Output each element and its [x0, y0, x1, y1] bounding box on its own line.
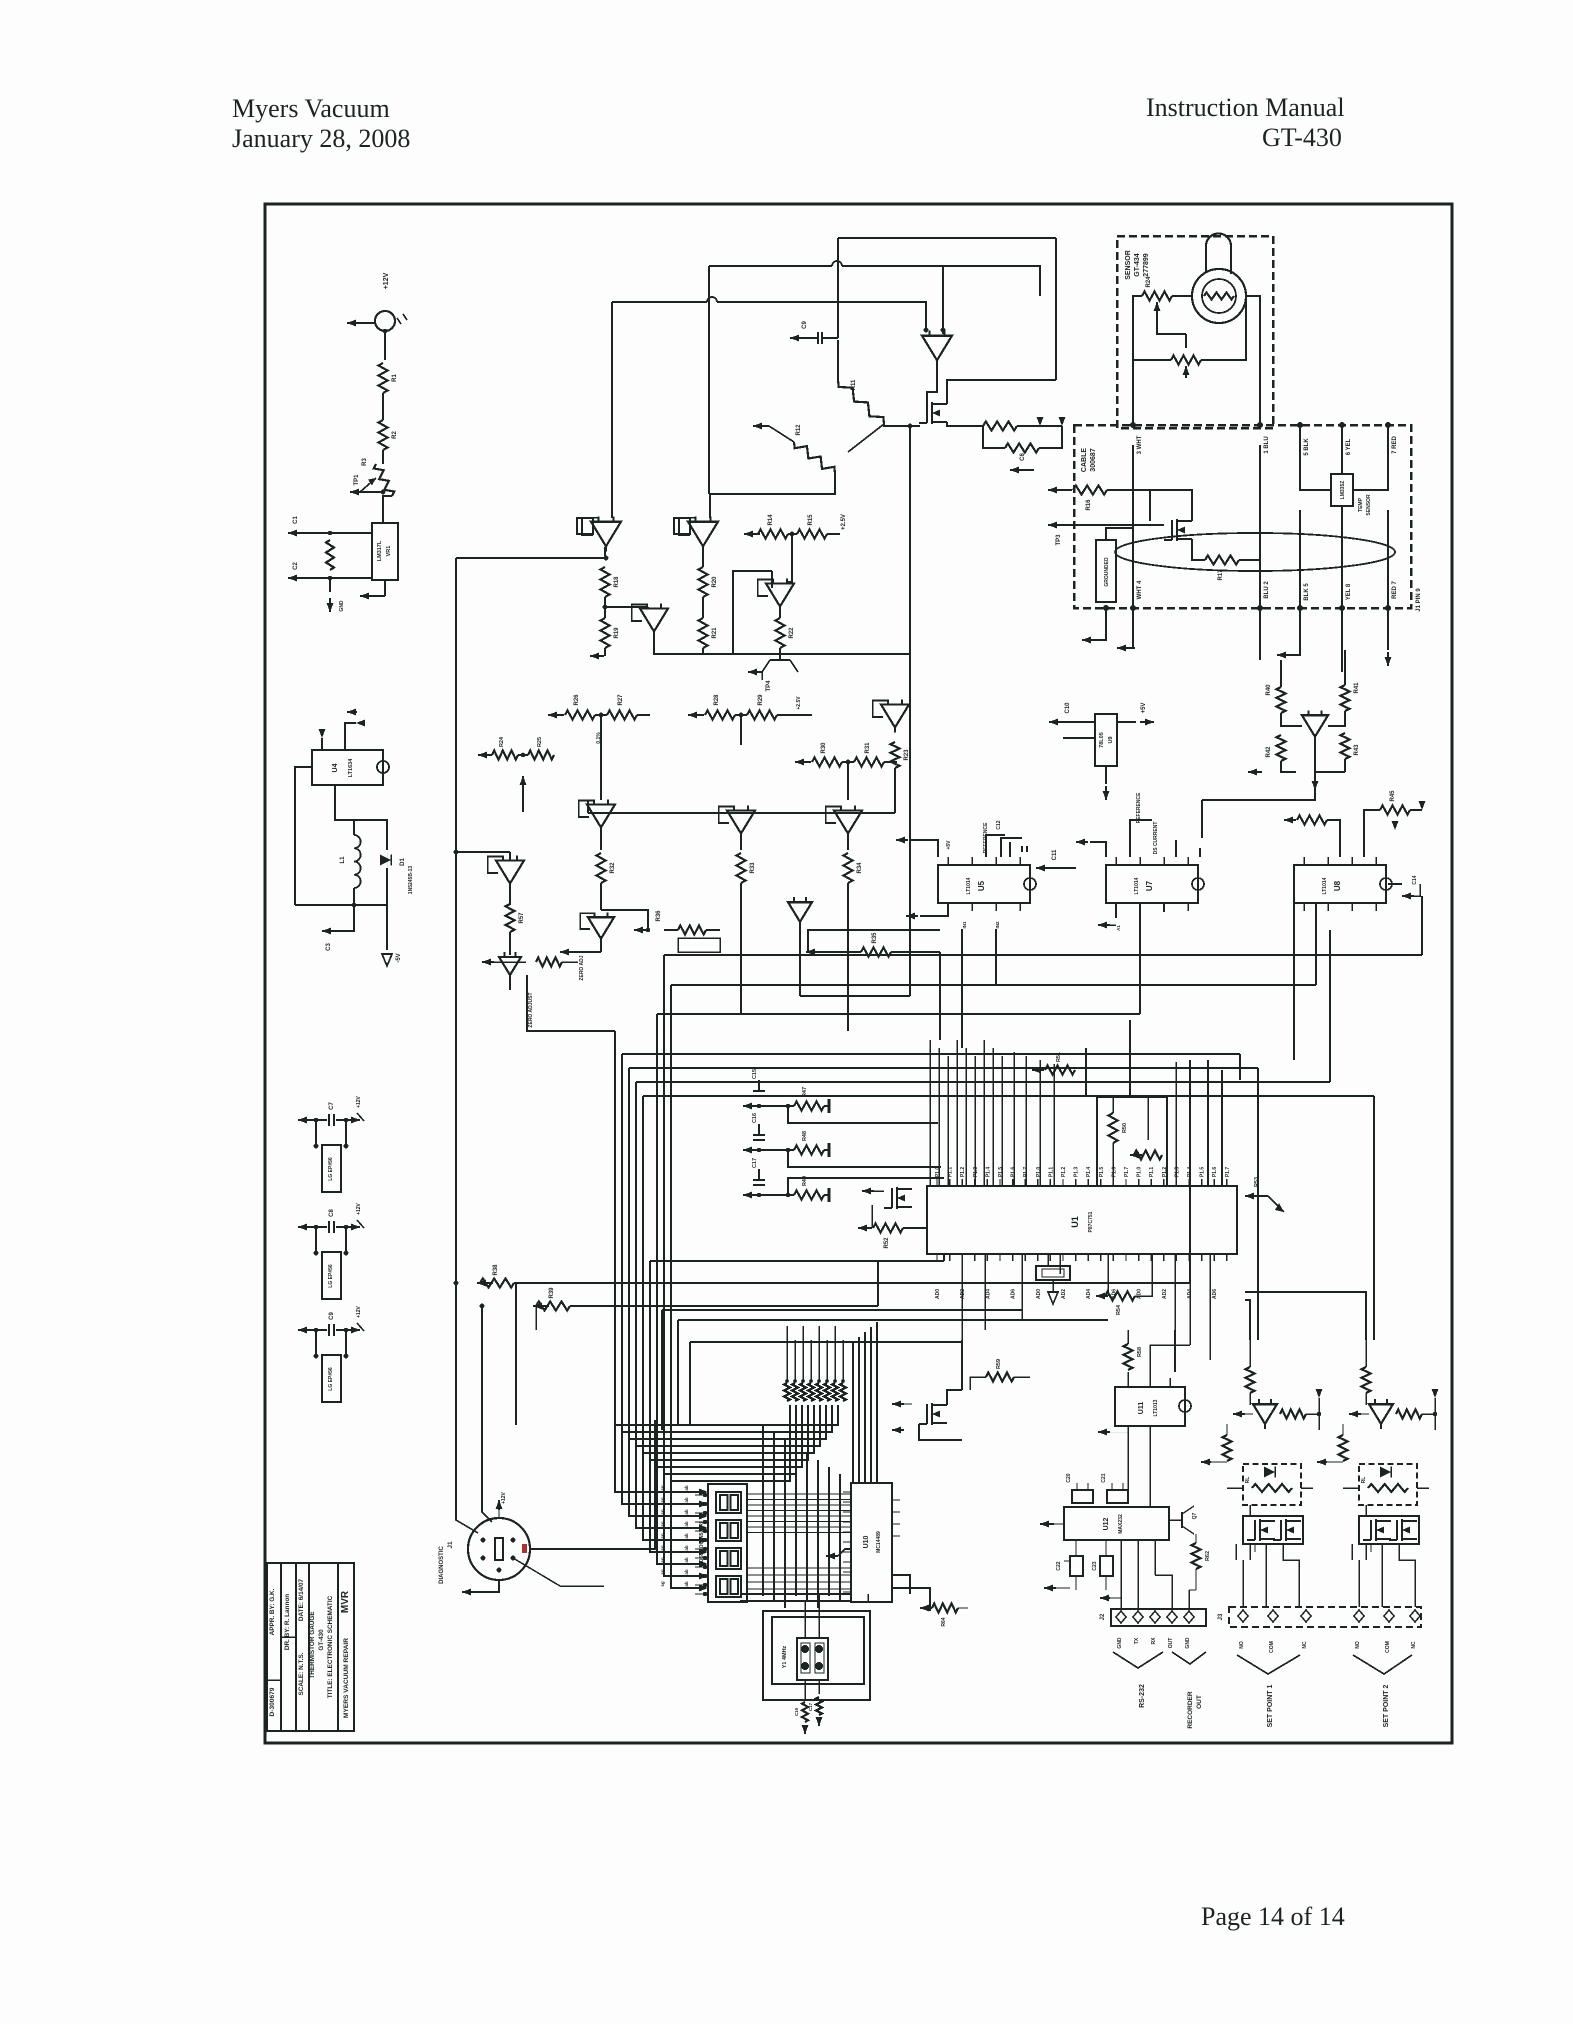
svg-text:R25: R25	[537, 737, 543, 747]
svg-text:7 RED: 7 RED	[1392, 435, 1398, 453]
bus band wire 1	[622, 1054, 1240, 1432]
svg-text:C21: C21	[1101, 1473, 1107, 1482]
svg-text:AD2: AD2	[1162, 1289, 1168, 1299]
bus band wire 3	[636, 930, 1330, 1446]
svg-text:Myers Vacuum: Myers Vacuum	[232, 94, 390, 123]
jack J6 connector LG EP#56	[322, 1355, 341, 1402]
wire thermistor top leads	[1206, 234, 1231, 275]
wire below U1 band	[650, 1261, 1108, 1460]
cable pin BLK 5	[1297, 583, 1310, 611]
reference U4 LT1009	[312, 750, 389, 785]
svg-text:R22: R22	[789, 627, 795, 639]
svg-text:U11: U11	[1138, 1402, 1145, 1415]
svg-text:RS-232: RS-232	[1139, 1684, 1146, 1708]
svg-text:78L05: 78L05	[1099, 732, 1105, 748]
U8 surround wires	[1284, 790, 1426, 930]
svg-text:C17: C17	[752, 1158, 758, 1168]
op-amp U5D mid2	[788, 897, 812, 935]
svg-text:SET POINT 1: SET POINT 1	[1267, 1685, 1274, 1728]
svg-text:U5: U5	[977, 880, 986, 891]
svg-text:IN2: IN2	[995, 921, 1000, 929]
resistor R19	[601, 618, 621, 648]
jack J5 coupling cap C8	[298, 1202, 364, 1233]
svg-text:R45: R45	[1390, 790, 1396, 802]
cluster small parts	[601, 910, 720, 952]
svg-text:C10: C10	[1065, 702, 1071, 714]
svg-text:+5V: +5V	[1141, 703, 1147, 714]
title appr	[269, 1588, 276, 1635]
svg-text:R50: R50	[1122, 1123, 1128, 1133]
svg-text:RL: RL	[1245, 1477, 1251, 1484]
transistor U6B	[482, 952, 578, 1028]
svg-text:VR1: VR1	[386, 546, 392, 557]
svg-text:D-300679: D-300679	[269, 1687, 276, 1716]
svg-text:R17: R17	[1218, 569, 1224, 581]
op-amp U5B mid	[579, 800, 615, 850]
svg-text:R39: R39	[549, 1287, 555, 1299]
svg-text:MC14489: MC14489	[876, 1531, 882, 1553]
wire rail jumper A	[709, 261, 943, 494]
arrow right of U1	[1245, 1177, 1284, 1212]
svg-text:LG EP#56: LG EP#56	[328, 1157, 334, 1181]
resistor R52 left of U1	[858, 1205, 927, 1249]
resistor trio right of U1	[1032, 1052, 1075, 1075]
svg-text:R29: R29	[758, 694, 764, 706]
arrow U10 enable	[826, 1549, 852, 1560]
resistor R2	[379, 420, 399, 450]
svg-text:AD0: AD0	[1137, 1289, 1143, 1299]
resistor R35 h	[806, 932, 940, 957]
u4 left rail	[295, 767, 312, 905]
resistor R16	[1048, 486, 1150, 511]
svg-text:C8: C8	[329, 1209, 335, 1217]
svg-text:+12V: +12V	[501, 1491, 507, 1503]
svg-text:C9: C9	[802, 321, 808, 329]
op-amp U5D mid	[826, 806, 862, 850]
resistor R13 pair	[962, 417, 1066, 453]
wire r20-r21	[702, 597, 704, 618]
cable pin BLU 2	[1257, 581, 1270, 611]
wire bus h5	[527, 930, 848, 1031]
inductor L1	[335, 785, 361, 888]
svg-text:P1.4: P1.4	[1086, 1167, 1092, 1178]
trim resistor R24	[1142, 276, 1192, 316]
J3 pin labels	[1239, 1641, 1417, 1653]
resistor R60a	[1246, 1340, 1255, 1405]
cable pin YEL 8	[1339, 583, 1352, 611]
svg-text:R32: R32	[610, 862, 616, 874]
resistor R18	[601, 567, 621, 597]
svg-text:LT1014: LT1014	[966, 877, 972, 894]
schematic border frame	[265, 204, 1452, 1743]
mosfet Q1	[919, 361, 947, 424]
mosfet Q2	[1150, 490, 1192, 541]
svg-text:+12V: +12V	[356, 1202, 362, 1214]
mosfet Q5 left of U1	[862, 1187, 912, 1209]
svg-text:ab: ab	[684, 1509, 689, 1515]
resistor R34 under	[844, 853, 864, 930]
op-amp U5C mid	[719, 806, 755, 850]
svg-text:SET POINT 2: SET POINT 2	[1383, 1685, 1390, 1728]
svg-text:U10: U10	[863, 1535, 870, 1548]
cable 300687 dashed box	[1074, 425, 1411, 608]
cable pin 5 BLK	[1297, 422, 1310, 456]
svg-text:R19: R19	[614, 627, 620, 639]
band fan verticals	[787, 1326, 843, 1381]
svg-text:WHT 4: WHT 4	[1137, 580, 1143, 599]
crystal caps C16 C17	[794, 1680, 823, 1734]
jack J5 connector LG EP#56	[322, 1252, 341, 1299]
wire u3a out	[779, 607, 781, 618]
grounded shield box	[1096, 528, 1133, 602]
wire YEL8 down to R27	[1341, 608, 1343, 672]
svg-text:P1.5: P1.5	[998, 1167, 1004, 1178]
capacitor C23	[1092, 1540, 1113, 1590]
resistor R61a	[1362, 1340, 1371, 1405]
thermistor RT1	[1192, 269, 1246, 323]
svg-text:R24: R24	[1146, 276, 1152, 288]
svg-text:LM335Z: LM335Z	[1340, 481, 1346, 500]
svg-text:AD4: AD4	[985, 1289, 991, 1299]
svg-text:C11: C11	[1052, 849, 1058, 860]
tee network A	[548, 694, 650, 800]
svg-text:ab: ab	[684, 1521, 689, 1527]
wire R1-R2	[382, 393, 384, 420]
resistor R62	[1192, 1534, 1212, 1590]
capacitor C20	[1066, 1473, 1093, 1503]
svg-text:AD2: AD2	[960, 1289, 966, 1299]
u4 top leads	[319, 709, 366, 751]
capacitor C9 top	[790, 238, 838, 344]
jack J5 bracket	[314, 1225, 349, 1256]
relay wires K2	[1352, 1505, 1415, 1607]
diag resistor R11	[838, 340, 884, 424]
svg-text:AD0: AD0	[935, 1289, 941, 1299]
svg-text:6 YEL: 6 YEL	[1346, 438, 1352, 455]
svg-text:C3: C3	[326, 943, 332, 951]
svg-text:TP1: TP1	[354, 474, 360, 486]
U12 down wires	[1121, 1540, 1196, 1609]
transistor driver K2	[1349, 1389, 1439, 1430]
svg-text:R53: R53	[1254, 1177, 1260, 1187]
svg-text:P1.2: P1.2	[1061, 1167, 1067, 1178]
svg-text:AD0: AD0	[1036, 1289, 1042, 1299]
wire RED7 down	[1385, 608, 1392, 666]
U10 bottom wires	[740, 1575, 930, 1611]
resistor R63 right of crystal	[920, 1604, 968, 1627]
header model number	[1262, 123, 1342, 152]
regulator VR1	[372, 523, 398, 580]
svg-text:R59: R59	[996, 1359, 1002, 1369]
crystal enclosure outer	[763, 1611, 870, 1700]
op-amp U3C	[588, 700, 910, 813]
svg-text:LG EP#56: LG EP#56	[328, 1264, 334, 1288]
vreg U9 vertical	[1049, 702, 1154, 800]
display DS1 4-digit	[699, 1484, 747, 1602]
svg-text:GND: GND	[1117, 1637, 1123, 1649]
svg-text:P1.6: P1.6	[1212, 1167, 1218, 1178]
display left pin blobs	[695, 1493, 707, 1596]
svg-text:ab: ab	[684, 1557, 689, 1563]
resistor R61b	[1317, 1424, 1348, 1466]
wire shield to ground	[1082, 608, 1106, 644]
relay wires K1	[1236, 1505, 1299, 1607]
svg-text:R30: R30	[821, 742, 827, 754]
svg-text:Y1 4MHz: Y1 4MHz	[782, 1645, 788, 1668]
svg-text:C20: C20	[1066, 1473, 1072, 1482]
svg-text:R18: R18	[614, 576, 620, 588]
wire rail jumper B	[612, 297, 926, 518]
svg-text:GND: GND	[1185, 1637, 1191, 1649]
svg-text:GT-430: GT-430	[1262, 123, 1342, 152]
svg-text:ab: ab	[684, 1545, 689, 1551]
J2 pin labels	[1117, 1637, 1191, 1649]
resistor R22	[776, 618, 796, 648]
svg-text:R51: R51	[1056, 1052, 1062, 1062]
svg-text:RX: RX	[1151, 1637, 1157, 1645]
svg-text:OUT: OUT	[1196, 1695, 1203, 1709]
title block frame	[267, 1563, 354, 1731]
svg-text:GT-430: GT-430	[318, 1629, 325, 1651]
svg-text:LM317L: LM317L	[377, 540, 383, 561]
title date	[298, 1578, 305, 1621]
wire bus h2	[962, 896, 1422, 955]
bus band wire 7	[671, 985, 996, 1481]
vertical drops right group	[1014, 1020, 1222, 1186]
transistor Q4 right	[1248, 650, 1360, 790]
title logo	[340, 1590, 351, 1613]
svg-text:U9: U9	[1108, 736, 1114, 743]
svg-text:+12V: +12V	[356, 1305, 362, 1317]
svg-text:+12V: +12V	[356, 1095, 362, 1107]
svg-text:AD6: AD6	[1011, 1289, 1017, 1299]
svg-text:TX: TX	[1134, 1637, 1140, 1644]
wire P1 down	[384, 331, 386, 360]
op-amp U6A	[488, 856, 524, 905]
svg-text:ab: ab	[684, 1569, 689, 1575]
svg-text:C6: C6	[1020, 453, 1026, 461]
svg-text:R27: R27	[618, 694, 624, 706]
svg-text:BLK 5: BLK 5	[1304, 583, 1310, 601]
U7 surround wires	[1076, 792, 1200, 929]
wire r19 down arrow	[590, 648, 605, 660]
svg-text:Page 14 of 14: Page 14 of 14	[1201, 1902, 1345, 1931]
wires U11 to U12	[1128, 1438, 1150, 1507]
resistor R39 long wire	[533, 1261, 878, 1311]
wire q2 context	[1048, 522, 1164, 546]
svg-text:SENSOR: SENSOR	[1366, 494, 1372, 516]
svg-text:5 BLK: 5 BLK	[1304, 438, 1310, 456]
svg-text:GND: GND	[339, 600, 345, 612]
svg-text:0.1%: 0.1%	[596, 732, 602, 744]
svg-text:R28: R28	[714, 694, 720, 706]
sensor label	[1125, 250, 1150, 280]
wire top rail A	[838, 238, 1056, 296]
title company	[343, 1638, 350, 1718]
cable pin 1 BLU	[1257, 422, 1270, 454]
set point 2 group arrow	[1353, 1655, 1412, 1727]
svg-text:C16: C16	[794, 1707, 799, 1716]
svg-text:BLU 2: BLU 2	[1264, 581, 1270, 599]
resistor R58	[1124, 1330, 1144, 1370]
svg-text:D1: D1	[400, 858, 406, 866]
title number	[269, 1687, 276, 1716]
wire fet drain	[947, 296, 1056, 404]
title line1	[327, 1595, 334, 1698]
svg-text:P1.5: P1.5	[1099, 1167, 1105, 1178]
svg-text:R16: R16	[1086, 499, 1092, 511]
header manual title	[1146, 93, 1345, 122]
svg-text:R57: R57	[519, 912, 525, 924]
svg-text:THERMISTOR GAUGE: THERMISTOR GAUGE	[309, 1611, 316, 1679]
svg-text:sg: sg	[660, 1581, 665, 1587]
op-amp U3A	[758, 560, 794, 611]
relay coil K2	[1343, 1464, 1429, 1505]
svg-text:C23: C23	[1092, 1561, 1098, 1570]
svg-text:R14: R14	[768, 514, 774, 526]
wire big loop left	[454, 558, 510, 1520]
sensor enclosure GT-434 dashed box	[1117, 236, 1273, 428]
resistor R20	[699, 567, 719, 597]
svg-text:ZERO ADJUST: ZERO ADJUST	[528, 992, 534, 1027]
svg-text:+2.5V: +2.5V	[796, 696, 802, 710]
svg-text:A1: A1	[1116, 925, 1121, 931]
svg-text:C22: C22	[1056, 1561, 1062, 1570]
J1 wires	[456, 1283, 655, 1596]
title block col lines	[281, 1563, 338, 1731]
svg-text:Q7: Q7	[1192, 1512, 1198, 1519]
op-amp IC U5 LT1014	[938, 857, 1036, 911]
resistor R60b	[1201, 1424, 1232, 1466]
U12 arrow left	[1040, 1521, 1070, 1592]
cable bundle ellipse	[1115, 533, 1395, 571]
svg-text:R2: R2	[392, 431, 398, 439]
svg-text:P1.4: P1.4	[985, 1167, 991, 1178]
tee resistors R14 R15	[744, 514, 847, 560]
svg-text:J2: J2	[1100, 1613, 1106, 1620]
svg-text:TP4: TP4	[766, 680, 772, 692]
relay channel feeds	[1245, 1292, 1366, 1340]
svg-text:P1.7: P1.7	[1225, 1167, 1231, 1178]
wire fet source to R13	[947, 422, 983, 426]
vertical drop lines to U1 top	[930, 1040, 1002, 1186]
svg-text:NC: NC	[1302, 1641, 1308, 1649]
op-amp U2B	[577, 517, 621, 552]
svg-text:ab: ab	[684, 1497, 689, 1503]
svg-text:R1: R1	[392, 374, 398, 382]
svg-text:P1.0: P1.0	[935, 1167, 941, 1178]
relay contacts K1	[1243, 1516, 1303, 1552]
svg-text:MYERS VACUUM REPAIR: MYERS VACUUM REPAIR	[343, 1638, 350, 1718]
resistor R32 under U5B	[597, 853, 617, 910]
anode resistor array RA1	[784, 1379, 846, 1401]
svg-text:R38: R38	[493, 1264, 499, 1276]
wires U11 to U1	[1150, 1330, 1190, 1375]
jack J4 coupling cap C7	[298, 1095, 364, 1126]
svg-text:C9: C9	[329, 1312, 335, 1320]
U7 pin labels	[1116, 822, 1159, 931]
svg-text:+2.5V: +2.5V	[841, 514, 847, 530]
svg-text:Instruction Manual: Instruction Manual	[1146, 93, 1345, 122]
op-amp U2A	[674, 517, 718, 552]
cable pin 6 YEL	[1339, 422, 1352, 455]
relay coil K1	[1227, 1464, 1313, 1505]
op-amp U5A lower	[560, 912, 614, 980]
connector J3	[1218, 1607, 1421, 1627]
wire long h1	[808, 930, 940, 952]
svg-text:sg: sg	[660, 1569, 665, 1575]
wire bus h4	[741, 918, 1140, 1014]
vr1 side caps	[288, 516, 372, 582]
svg-text:APPR. BY: G.K.: APPR. BY: G.K.	[269, 1588, 276, 1635]
J2 arrow gnd	[1100, 1595, 1121, 1610]
svg-text:R26: R26	[574, 694, 580, 706]
svg-text:-5V: -5V	[396, 953, 402, 962]
svg-text:R54: R54	[1116, 1304, 1122, 1315]
cable pin RED 7	[1385, 581, 1398, 611]
op-amp IC U7 LT1014	[1106, 857, 1204, 911]
svg-text:C2: C2	[293, 562, 299, 570]
cable pin WHT 4	[1130, 580, 1143, 611]
svg-text:LT1013: LT1013	[1153, 1399, 1159, 1416]
svg-text:1 BLU: 1 BLU	[1264, 436, 1270, 453]
resistor R38 long wire	[477, 916, 1294, 1288]
transistor driver K1	[1233, 1389, 1323, 1430]
wire Q4 out	[1202, 738, 1315, 838]
svg-text:REFERENCE: REFERENCE	[1136, 792, 1142, 824]
resistor R21	[699, 618, 719, 654]
svg-text:LT1014: LT1014	[1322, 877, 1328, 894]
svg-text:R21: R21	[712, 627, 718, 639]
transistor Q7	[1169, 1506, 1198, 1534]
display to U10 wires bottom	[747, 1568, 851, 1589]
svg-text:J1 PIN 9: J1 PIN 9	[1416, 588, 1422, 612]
svg-text:R64: R64	[941, 1617, 947, 1626]
crystal enclosure inner	[772, 1617, 864, 1684]
svg-text:R15: R15	[808, 514, 814, 526]
svg-text:R24: R24	[499, 736, 505, 747]
jack J6 coupling cap C9	[298, 1305, 364, 1336]
wire BLU2 down long	[1259, 608, 1261, 660]
op-amp U3B	[632, 604, 668, 637]
svg-text:ab: ab	[684, 1533, 689, 1539]
wire thermistor right lead down	[1246, 296, 1260, 425]
svg-text:SENSOR: SENSOR	[1125, 250, 1132, 280]
wire bus h3	[996, 930, 1316, 985]
svg-text:MAX232: MAX232	[1118, 1514, 1124, 1534]
svg-text:P1.7: P1.7	[1124, 1167, 1130, 1178]
svg-text:RL: RL	[1361, 1477, 1367, 1484]
svg-text:U12: U12	[1103, 1517, 1110, 1530]
pot R3 diagonal	[360, 450, 394, 523]
svg-text:AD2: AD2	[1061, 1289, 1067, 1299]
rc row 1 above U1	[743, 1069, 938, 1123]
recorder out group arrow	[1172, 1652, 1206, 1729]
cable wires vertical	[1133, 445, 1388, 608]
comparator U11 LT1013	[1098, 1372, 1191, 1438]
svg-text:LT1014: LT1014	[1134, 877, 1140, 894]
pin label blobs U1 top	[935, 1167, 1231, 1178]
svg-text:R11: R11	[851, 379, 857, 390]
wire u3b down	[654, 571, 911, 654]
svg-text:NC: NC	[1411, 1641, 1417, 1649]
diag resistor R12	[794, 424, 884, 473]
pin label blobs U1 bottom	[935, 1289, 1218, 1299]
svg-text:ab: ab	[684, 1581, 689, 1587]
ground arrow U4	[382, 905, 402, 966]
svg-text:+5V: +5V	[946, 840, 952, 850]
cable pin 3 WHT	[1130, 422, 1143, 454]
